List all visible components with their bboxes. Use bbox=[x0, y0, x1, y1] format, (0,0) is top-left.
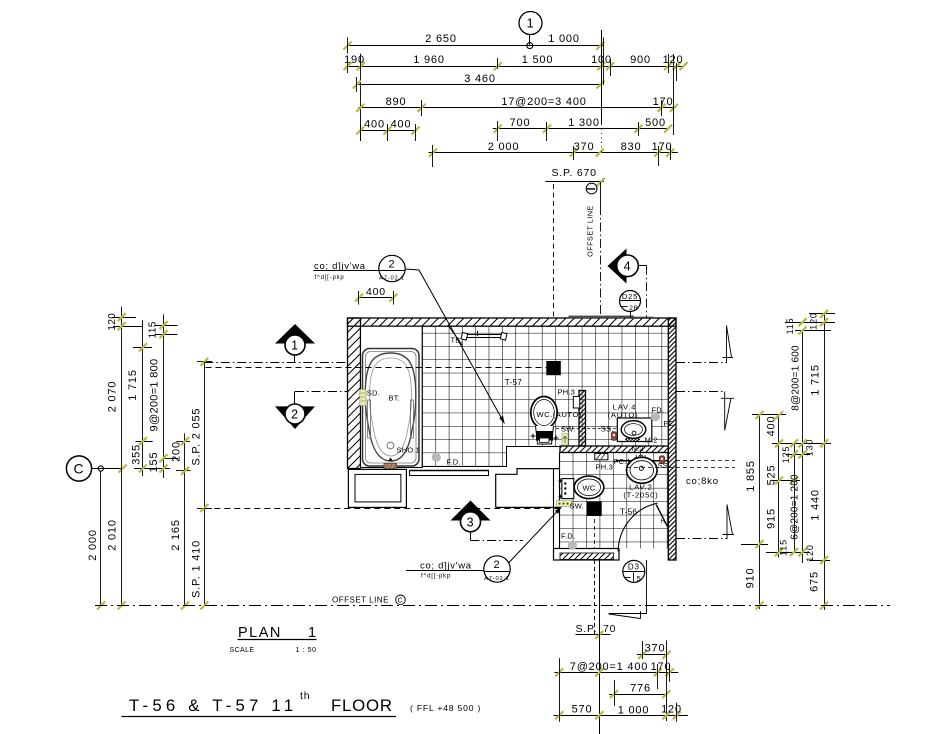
svg-text:S.P. 670: S.P. 670 bbox=[552, 167, 597, 179]
svg-text:4: 4 bbox=[624, 259, 632, 273]
svg-text:OFFSET LINE: OFFSET LINE bbox=[585, 205, 594, 257]
svg-text:120: 120 bbox=[107, 313, 118, 331]
svg-text:400: 400 bbox=[364, 119, 385, 131]
svg-text:910: 910 bbox=[745, 568, 757, 589]
svg-text:SS.: SS. bbox=[658, 461, 671, 470]
svg-text:370: 370 bbox=[645, 643, 666, 655]
svg-text:570: 570 bbox=[572, 704, 593, 716]
svg-text:1 715: 1 715 bbox=[810, 364, 822, 396]
svg-text:115: 115 bbox=[779, 539, 789, 556]
svg-text:2B: 2B bbox=[629, 305, 639, 312]
svg-text:70: 70 bbox=[603, 623, 616, 635]
svg-text:8@200=1 600: 8@200=1 600 bbox=[791, 345, 802, 411]
svg-text:130: 130 bbox=[805, 439, 815, 456]
svg-text:5: 5 bbox=[637, 574, 642, 583]
svg-text:WC.: WC. bbox=[583, 484, 598, 493]
svg-text:FC.: FC. bbox=[664, 419, 677, 428]
svg-text:915: 915 bbox=[766, 508, 778, 529]
svg-text:2 165: 2 165 bbox=[170, 519, 182, 551]
svg-text:1 : 50: 1 : 50 bbox=[296, 647, 317, 654]
svg-text:co;8ko: co;8ko bbox=[686, 476, 719, 487]
svg-text:PLAN: PLAN bbox=[238, 625, 282, 641]
svg-text:200: 200 bbox=[171, 441, 183, 462]
svg-text:1 000: 1 000 bbox=[618, 705, 650, 717]
svg-text:BT.: BT. bbox=[389, 394, 400, 403]
svg-text:SCALE: SCALE bbox=[230, 647, 255, 654]
svg-text:2 000: 2 000 bbox=[488, 141, 520, 153]
svg-text:120: 120 bbox=[809, 312, 819, 329]
svg-text:T-56 & T-57 11: T-56 & T-57 11 bbox=[129, 696, 297, 715]
svg-text:SS.: SS. bbox=[601, 424, 614, 433]
svg-text:T-57: T-57 bbox=[505, 378, 522, 387]
svg-text:1 715: 1 715 bbox=[127, 369, 139, 401]
svg-text:1: 1 bbox=[526, 16, 534, 31]
svg-text:M.2: M.2 bbox=[645, 436, 658, 445]
svg-text:2: 2 bbox=[389, 259, 396, 271]
svg-text:(AUTO): (AUTO) bbox=[608, 410, 639, 419]
svg-text:FD.: FD. bbox=[652, 406, 665, 415]
svg-text:776: 776 bbox=[630, 682, 651, 694]
svg-text:SD.: SD. bbox=[367, 389, 380, 398]
svg-text:SHO.1: SHO.1 bbox=[397, 446, 421, 455]
svg-text:170: 170 bbox=[653, 96, 674, 108]
svg-text:T-56: T-56 bbox=[620, 508, 637, 517]
svg-text:3: 3 bbox=[467, 515, 475, 529]
svg-text:400: 400 bbox=[391, 119, 412, 131]
svg-text:675: 675 bbox=[809, 571, 821, 592]
svg-text:SW.: SW. bbox=[561, 424, 575, 433]
svg-text:17@200=3 400: 17@200=3 400 bbox=[501, 96, 586, 108]
svg-text:525: 525 bbox=[766, 465, 778, 486]
svg-text:1: 1 bbox=[308, 625, 317, 641]
svg-text:f^d[[-pkp: f^d[[-pkp bbox=[315, 275, 345, 281]
svg-text:120: 120 bbox=[805, 544, 815, 561]
svg-text:9@200=1 800: 9@200=1 800 bbox=[149, 359, 161, 432]
svg-text:900: 900 bbox=[630, 54, 651, 66]
svg-text:2 010: 2 010 bbox=[107, 519, 119, 551]
svg-text:155: 155 bbox=[148, 452, 160, 473]
svg-text:N.2: N.2 bbox=[632, 444, 644, 453]
svg-text:f^d[[-pkp: f^d[[-pkp bbox=[421, 574, 451, 580]
svg-text:1 300: 1 300 bbox=[568, 117, 600, 129]
svg-text:F.D.: F.D. bbox=[561, 532, 575, 541]
svg-text:C: C bbox=[398, 598, 404, 605]
svg-text:S.P. 2 055: S.P. 2 055 bbox=[191, 408, 203, 466]
svg-text:F.D.: F.D. bbox=[447, 458, 461, 467]
svg-text:S.P. 1 410: S.P. 1 410 bbox=[191, 540, 203, 598]
svg-text:115: 115 bbox=[148, 321, 159, 338]
svg-text:170: 170 bbox=[651, 661, 672, 673]
svg-text:120: 120 bbox=[661, 704, 682, 716]
svg-text:7@200=1 400: 7@200=1 400 bbox=[570, 661, 648, 673]
svg-text:A7-02.1: A7-02.1 bbox=[484, 576, 510, 582]
svg-text:2 070: 2 070 bbox=[107, 381, 119, 413]
svg-text:(T-2050): (T-2050) bbox=[623, 490, 658, 499]
svg-text:D3: D3 bbox=[628, 563, 640, 572]
svg-text:1 855: 1 855 bbox=[745, 460, 757, 492]
svg-text:1: 1 bbox=[291, 339, 299, 353]
svg-text:SW.: SW. bbox=[570, 502, 584, 511]
svg-text:830: 830 bbox=[621, 141, 642, 153]
svg-text:PH.3: PH.3 bbox=[558, 388, 575, 397]
svg-text:120: 120 bbox=[663, 54, 684, 66]
svg-text:1 000: 1 000 bbox=[548, 33, 580, 45]
svg-text:3 460: 3 460 bbox=[464, 73, 496, 85]
svg-text:PH.3: PH.3 bbox=[596, 463, 613, 472]
svg-text:2 000: 2 000 bbox=[87, 529, 99, 561]
svg-text:115: 115 bbox=[785, 318, 795, 335]
svg-text:125: 125 bbox=[781, 446, 791, 463]
svg-text:WC.(AUTO): WC.(AUTO) bbox=[537, 410, 582, 419]
svg-text:2: 2 bbox=[291, 408, 299, 422]
svg-text:400: 400 bbox=[766, 416, 778, 437]
svg-text:400: 400 bbox=[366, 286, 386, 298]
svg-text:S.P.: S.P. bbox=[576, 623, 598, 635]
svg-text:890: 890 bbox=[386, 96, 407, 108]
svg-text:1 960: 1 960 bbox=[413, 54, 445, 66]
svg-text:6@200=1 200: 6@200=1 200 bbox=[790, 474, 801, 540]
svg-text:2 650: 2 650 bbox=[425, 33, 457, 45]
svg-text:D25: D25 bbox=[622, 292, 638, 301]
svg-text:355: 355 bbox=[131, 444, 143, 465]
svg-text:co; d]jv'wa: co; d]jv'wa bbox=[420, 561, 472, 572]
svg-text:FC.1: FC.1 bbox=[614, 457, 631, 466]
svg-text:H.1: H.1 bbox=[661, 519, 671, 525]
svg-text:A7-02.1: A7-02.1 bbox=[379, 275, 405, 281]
svg-text:OFFSET LINE: OFFSET LINE bbox=[332, 596, 389, 605]
svg-text:1 500: 1 500 bbox=[522, 54, 554, 66]
svg-text:1 440: 1 440 bbox=[810, 489, 822, 521]
svg-text:( FFL +48 500 ): ( FFL +48 500 ) bbox=[410, 703, 481, 713]
svg-text:170: 170 bbox=[652, 141, 673, 153]
svg-text:th: th bbox=[300, 690, 310, 702]
svg-text:190: 190 bbox=[344, 54, 365, 66]
svg-text:C: C bbox=[74, 461, 85, 477]
svg-text:2: 2 bbox=[494, 559, 501, 571]
svg-text:FLOOR: FLOOR bbox=[331, 696, 393, 715]
svg-text:500: 500 bbox=[645, 117, 666, 129]
svg-text:700: 700 bbox=[510, 117, 531, 129]
svg-text:370: 370 bbox=[574, 141, 595, 153]
